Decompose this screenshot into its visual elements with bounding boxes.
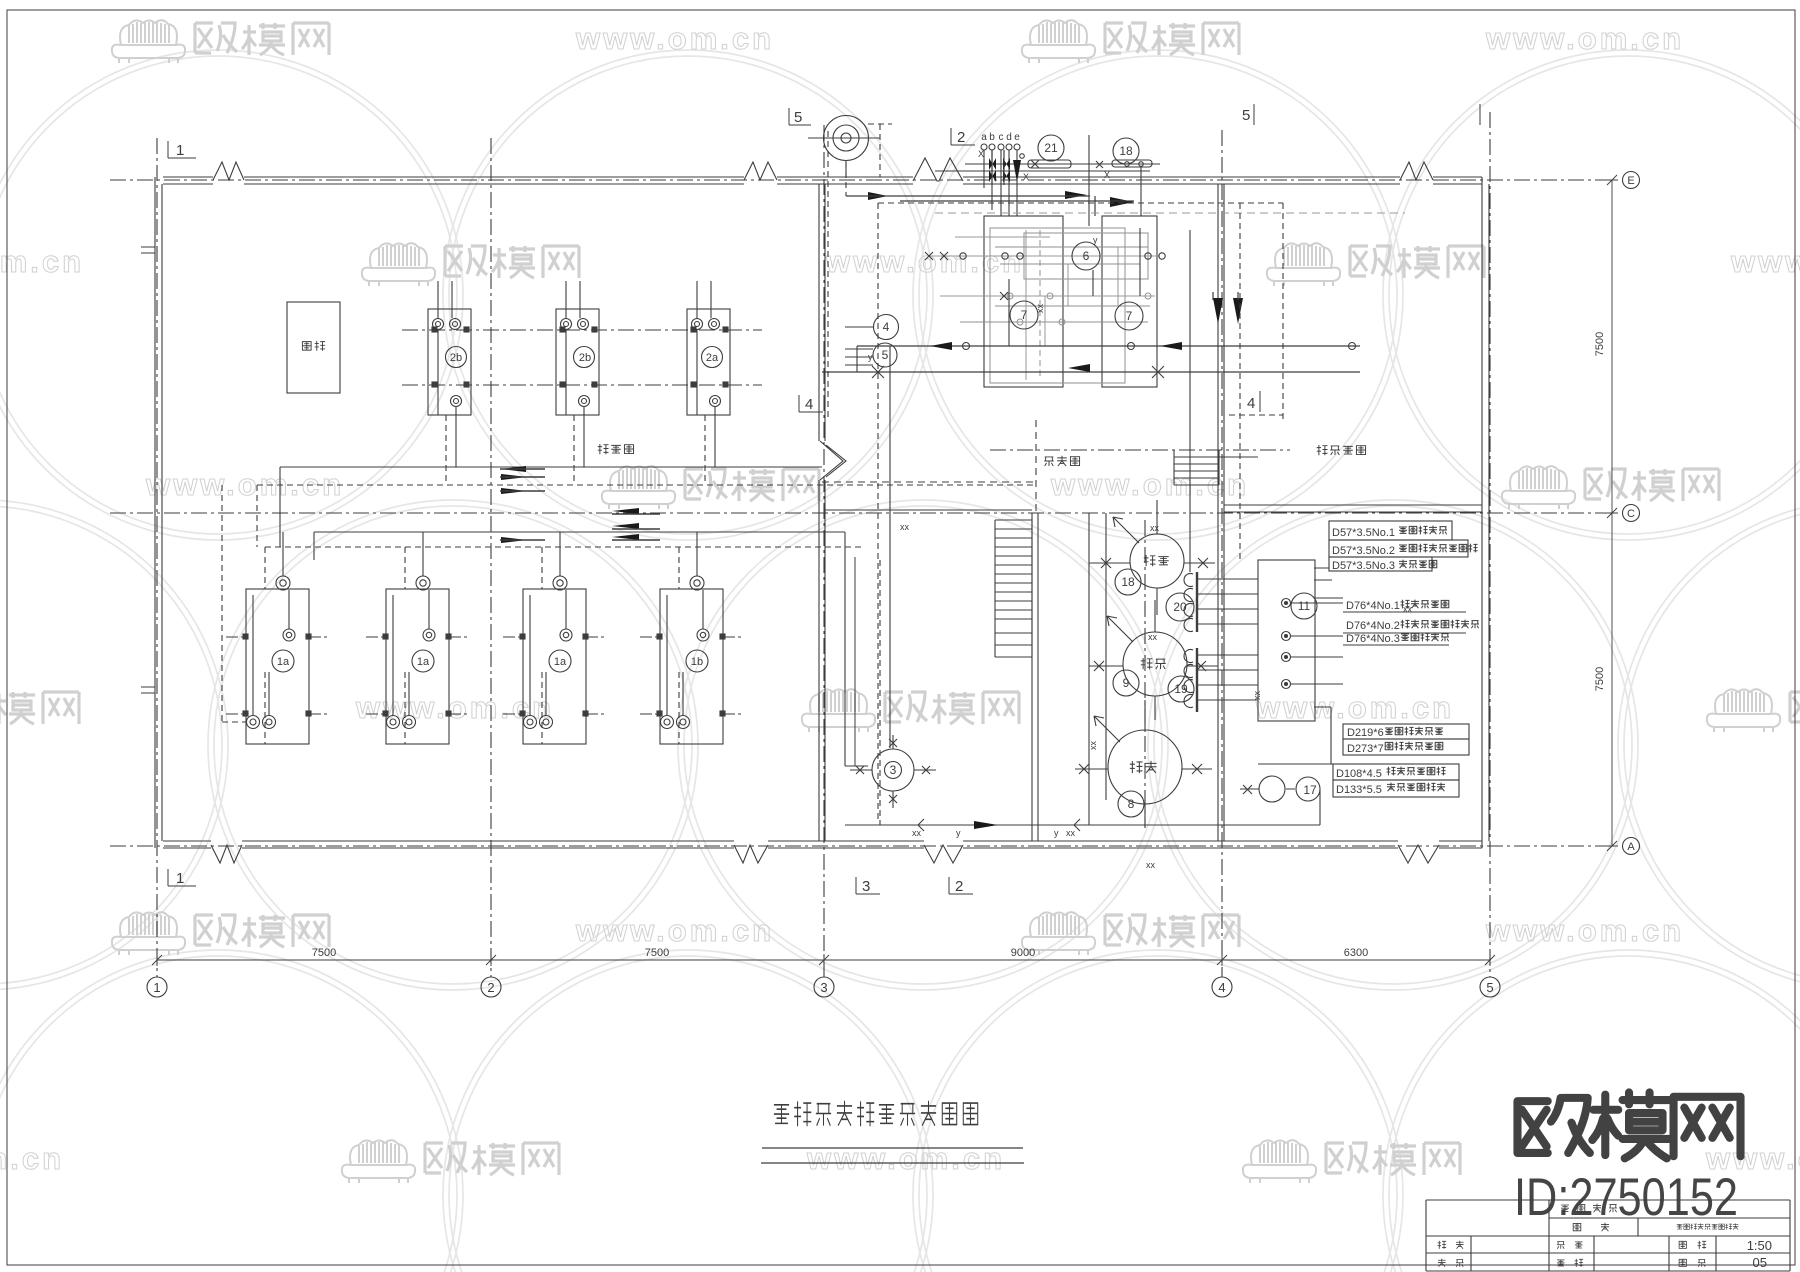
dimension texts [312, 332, 1606, 959]
title block table [1426, 1200, 1790, 1271]
reserved box 预留 [287, 302, 340, 393]
grid circle C [1623, 505, 1640, 522]
svg-text:1: 1 [153, 980, 160, 995]
internal wall 4 (x=1221) [1218, 184, 1224, 841]
instrument circle 18b [1115, 569, 1141, 595]
svg-text:y: y [956, 828, 961, 838]
comb manifold upper [1184, 572, 1258, 632]
svg-text:7: 7 [1021, 308, 1028, 322]
right wall [1482, 177, 1489, 848]
svg-text:3: 3 [820, 980, 827, 995]
flow arrows left room [500, 466, 639, 543]
room label 油处理间 [1317, 445, 1366, 455]
vessel 冷却 [1090, 600, 1218, 720]
label underline D219/D273 [1343, 724, 1469, 755]
svg-text:D76*4No.3: D76*4No.3 [1346, 633, 1400, 645]
svg-text:1:50: 1:50 [1747, 1238, 1772, 1253]
svg-text:D108*4.5: D108*4.5 [1336, 768, 1382, 780]
svg-text:D76*4No.2: D76*4No.2 [1346, 620, 1400, 632]
svg-text:xx: xx [1150, 523, 1160, 533]
manifold pipe y=532 [314, 532, 845, 766]
svg-text:D133*5.5: D133*5.5 [1336, 784, 1382, 796]
pipe line y=372 with valves [822, 364, 1360, 378]
om.cn logo [1517, 1092, 1740, 1158]
svg-text:05: 05 [1753, 1255, 1767, 1270]
svg-text:20: 20 [1173, 600, 1187, 614]
vessel label 冷却 [1141, 658, 1166, 669]
svg-text:5: 5 [1242, 107, 1250, 124]
svg-text:1: 1 [176, 870, 184, 887]
instrument circle 5 [873, 343, 897, 367]
instrument circle 21 [1038, 135, 1064, 161]
vessel label 冻结 [1130, 761, 1157, 773]
stairs 1 [995, 520, 1032, 657]
svg-text:8: 8 [1128, 797, 1135, 811]
svg-text:5: 5 [794, 109, 802, 126]
compressor circle 6 [1072, 242, 1100, 270]
compressor unit 2b #1 [428, 281, 471, 485]
internal risers [890, 228, 1190, 748]
svg-text:5: 5 [882, 348, 889, 362]
svg-text:A: A [1627, 841, 1635, 853]
compressor unit 2a [687, 281, 730, 485]
svg-text:y: y [868, 352, 873, 362]
svg-text:4: 4 [1247, 395, 1255, 412]
pump unit 1a #3 [503, 532, 606, 744]
svg-text:4: 4 [805, 396, 813, 413]
svg-text:7500: 7500 [1594, 332, 1606, 356]
equipment tag texts [277, 352, 719, 668]
svg-text:www.om.cn: www.om.cn [806, 1141, 1005, 1176]
door leaf in wall 3 [820, 441, 846, 480]
dashed loop left edge [828, 131, 1283, 417]
top wall break symbols [213, 162, 244, 180]
D57 pipe labels [1332, 527, 1400, 796]
pipe line y=346 [857, 342, 1360, 350]
left wall window ticks [141, 247, 155, 693]
pump unit 1b [640, 532, 743, 744]
svg-text:D273*7: D273*7 [1347, 743, 1384, 755]
instrument circle 4 [874, 315, 899, 340]
vessel 冷藏 [1098, 500, 1215, 615]
room label 机器间 [598, 444, 634, 454]
extra cluster piping [960, 230, 1151, 380]
room label 预留 [302, 341, 325, 351]
svg-text:7: 7 [1126, 309, 1133, 323]
svg-text:2a: 2a [706, 352, 719, 364]
svg-text:D57*3.5No.3: D57*3.5No.3 [1332, 560, 1395, 572]
svg-text:www.om.cn: www.om.cn [0, 1141, 64, 1176]
svg-text:18: 18 [1119, 144, 1133, 158]
valve header letters a-e risers [981, 144, 1020, 216]
manifold pipe y=485 dashed [257, 485, 1036, 547]
lower middle pipework [825, 510, 1032, 766]
svg-text:www.om.cn: www.om.cn [1730, 244, 1800, 279]
grid axis C [110, 512, 1622, 514]
svg-text:1a: 1a [417, 656, 430, 668]
svg-text:xx: xx [1088, 741, 1098, 751]
gray pipe frame around 6 [930, 228, 1160, 383]
D-label hanzi tails [1385, 526, 1479, 792]
svg-text:y: y [1054, 828, 1059, 838]
small pipe annotations [868, 149, 1413, 870]
svg-text:2: 2 [957, 129, 965, 146]
vessel label 冷藏 [1144, 555, 1169, 566]
dashed equipment-room boundary [822, 420, 1036, 513]
svg-text:9000: 9000 [1011, 947, 1035, 959]
grid axis E [110, 179, 1622, 181]
svg-text:1b: 1b [691, 656, 703, 668]
svg-text:www.om.cn: www.om.cn [145, 467, 344, 502]
svg-text:7500: 7500 [312, 947, 336, 959]
svg-text:D57*3.5No.2: D57*3.5No.2 [1332, 545, 1395, 557]
title underlines [761, 1148, 1024, 1163]
pump unit 1a #2 [366, 532, 469, 744]
svg-text:3: 3 [862, 878, 870, 895]
svg-text:xx: xx [912, 828, 922, 838]
svg-text:17: 17 [1303, 783, 1317, 797]
instrument circle 18 [1113, 138, 1139, 164]
left long dashed riser [222, 485, 246, 722]
fan unit 5 top [808, 116, 892, 178]
grid bubble labels [153, 980, 1493, 995]
dashed control loop [846, 162, 1283, 820]
compressor unit 2b #2 [556, 281, 599, 485]
svg-text:d: d [1006, 132, 1012, 143]
section markers [168, 104, 1480, 895]
svg-text:b: b [989, 132, 995, 143]
svg-text:2: 2 [955, 878, 963, 895]
condensing unit rect left [984, 216, 1063, 387]
bottom dimension line [157, 954, 1490, 966]
svg-text:www.om.cn: www.om.cn [1255, 690, 1454, 725]
svg-text:18: 18 [1121, 575, 1135, 589]
svg-text:www.om.cn: www.om.cn [1485, 913, 1684, 948]
svg-text:y: y [1093, 235, 1098, 245]
abcde labels [981, 132, 1020, 143]
separator circle + instrument 17 [1240, 776, 1320, 802]
svg-text:X: X [1104, 170, 1110, 180]
vessel 冻结 [1075, 700, 1212, 828]
axis line through compressors y=385 [402, 384, 762, 386]
compressor circle 7 left [1010, 301, 1038, 329]
svg-text:C: C [1627, 508, 1635, 520]
svg-text:7500: 7500 [645, 947, 669, 959]
left wall [155, 177, 162, 848]
svg-text:www.om.cn: www.om.cn [575, 913, 774, 948]
comb manifold lower [1184, 648, 1258, 712]
grid circle 5 [1480, 977, 1500, 997]
svg-text:X: X [1023, 172, 1029, 182]
svg-text:4: 4 [1218, 980, 1225, 995]
pump unit 1a #1 [226, 532, 329, 744]
risers to vessels [1075, 563, 1098, 769]
axis line through compressors y=330 [402, 329, 762, 331]
svg-text:xx: xx [1146, 860, 1156, 870]
check valve pair on risers [868, 158, 1243, 324]
room label 设备间 [1044, 456, 1079, 466]
svg-text:D57*3.5No.1: D57*3.5No.1 [1332, 527, 1395, 539]
svg-text:2b: 2b [579, 352, 591, 364]
label underline D108/D133 [1258, 764, 1459, 797]
svg-text:www.om.cn: www.om.cn [1485, 21, 1684, 56]
svg-text:xx: xx [1252, 691, 1262, 701]
svg-text:5: 5 [1486, 980, 1493, 995]
condensing unit rect right [1102, 216, 1157, 387]
label box D57 group [1329, 521, 1468, 571]
instrument circle 19 [1168, 676, 1194, 702]
grid circle 2 [481, 977, 501, 997]
bottom distribution pipe [845, 346, 1320, 831]
instrument circle 11 [1291, 593, 1317, 619]
svg-text:xx: xx [1148, 632, 1158, 642]
svg-text:www.om.cn: www.om.cn [0, 244, 84, 279]
top wall [163, 177, 1482, 184]
svg-text:21: 21 [1044, 141, 1058, 155]
manifold pipe y=547 dashed [265, 546, 862, 548]
grid axis 4 [1221, 130, 1223, 977]
svg-text:2: 2 [487, 980, 494, 995]
svg-text:11: 11 [1298, 599, 1311, 613]
svg-text:1a: 1a [554, 656, 567, 668]
svg-text:xx: xx [1066, 828, 1076, 838]
svg-text:1: 1 [176, 142, 184, 159]
internal wall 3 (x=822) [819, 184, 825, 841]
svg-text:7500: 7500 [1594, 667, 1606, 691]
internal wall B (x=1035) [1032, 513, 1038, 841]
svg-text:xx: xx [900, 522, 910, 532]
svg-text:X: X [978, 149, 984, 159]
label underline D76 group [1314, 598, 1466, 645]
internal wall D (y=508) right room [1224, 505, 1482, 512]
manifold pipe y=467 [280, 467, 822, 547]
bottom wall [163, 841, 1482, 848]
instrument circle 20 [1166, 593, 1194, 621]
instrument circle 8 [1118, 791, 1144, 817]
svg-text:9: 9 [1123, 676, 1130, 690]
svg-text:a: a [981, 132, 987, 143]
svg-text:1a: 1a [277, 656, 290, 668]
svg-text:xx: xx [1035, 304, 1045, 314]
right dimension line [1606, 180, 1618, 846]
svg-text:e: e [1014, 132, 1020, 143]
grid axis 2 [490, 138, 492, 977]
svg-text:E: E [1627, 175, 1634, 187]
grid circle A [1623, 838, 1640, 855]
grid circle 4 [1212, 977, 1232, 997]
arrow pipes top [846, 150, 1238, 300]
drawing title 氨机房制冷工艺平面图 [774, 1101, 978, 1127]
pump 3 (double circle) [850, 735, 936, 808]
instrument circle 9 [1113, 670, 1139, 696]
svg-text:www.om.cn: www.om.cn [575, 21, 774, 56]
svg-text:19: 19 [1174, 682, 1188, 696]
distribution box [1258, 560, 1343, 764]
svg-text:D219*6: D219*6 [1347, 727, 1384, 739]
top process piping [935, 135, 1160, 226]
grid axis 5 [1489, 112, 1491, 977]
axis y=450 oil room [990, 449, 1290, 451]
svg-text:4: 4 [883, 320, 890, 334]
svg-text:www.om.cn: www.om.cn [825, 244, 1024, 279]
grid circle E [1623, 172, 1640, 189]
grid axis 3 [823, 125, 825, 977]
compressor circle 7 right [1115, 302, 1143, 330]
bottom wall break symbols [211, 845, 242, 863]
grid axis 1 [156, 138, 158, 977]
grid circle 3 [814, 977, 834, 997]
grid circle 1 [147, 977, 167, 997]
table texts [1438, 1204, 1772, 1270]
grid axis A [110, 845, 1622, 847]
svg-text:c: c [999, 132, 1004, 143]
svg-text:6300: 6300 [1344, 947, 1368, 959]
svg-text:D76*4No.1: D76*4No.1 [1346, 600, 1400, 612]
tiny valve circles row [925, 252, 1165, 260]
svg-text:3: 3 [890, 763, 897, 777]
svg-text:6: 6 [1083, 249, 1090, 263]
stairs 2 [1174, 450, 1258, 485]
svg-text:2b: 2b [450, 352, 462, 364]
